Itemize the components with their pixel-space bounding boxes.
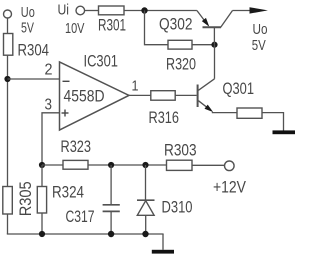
svg-text:D310: D310 <box>162 198 193 217</box>
svg-text:R301: R301 <box>98 16 126 35</box>
node junction at pin2 tap <box>4 76 10 82</box>
node junction C317/bottom rail <box>108 231 114 237</box>
Q302 collector lead <box>221 11 233 28</box>
Q301 base bar <box>197 85 199 108</box>
wire Q302 collector to output arrow <box>233 10 252 12</box>
svg-text:IC301: IC301 <box>84 51 119 70</box>
wire bottom rail <box>7 233 164 235</box>
node junction R324/bottom rail <box>39 231 45 237</box>
terminal Uo 5V (left input) <box>4 10 12 18</box>
node junction C317 tap <box>108 162 114 168</box>
emitter resistor (unlabeled) <box>237 108 262 118</box>
svg-text:2: 2 <box>45 62 53 79</box>
D310 bottom lead <box>145 215 147 234</box>
node junction Q302 base / R320 / Q301 collector <box>211 42 217 48</box>
svg-text:R303: R303 <box>164 141 197 160</box>
capacitor C317 <box>103 165 120 234</box>
svg-text:3: 3 <box>45 97 53 114</box>
svg-text:C317: C317 <box>66 207 95 226</box>
wire Q301 emitter to emitter resistor <box>212 112 237 114</box>
terminal Ui 10V <box>76 6 85 15</box>
node junction R323/R324/pin3 <box>39 162 45 168</box>
svg-text:R320: R320 <box>166 55 196 74</box>
diode D310 (zener, cathode up) <box>137 165 155 234</box>
svg-text:R316: R316 <box>149 108 180 127</box>
svg-text:Q302: Q302 <box>159 15 193 34</box>
D310 cathode bar <box>137 199 155 201</box>
svg-text:4558D: 4558D <box>64 86 105 105</box>
svg-text:Uo: Uo <box>21 4 35 21</box>
D310 triangle <box>137 201 154 216</box>
D310 top lead <box>145 165 147 200</box>
resistor R320 <box>168 40 192 49</box>
wire R303 to terminal +12V <box>192 164 225 166</box>
wire to op-amp pin 2 <box>8 78 60 80</box>
wire Ui to R301 <box>85 10 99 12</box>
wire node to R323 <box>42 164 63 166</box>
node junction D310 tap <box>142 162 148 168</box>
wire R320 to base node <box>192 44 215 46</box>
Q301 emitter lead <box>198 101 209 110</box>
Q301 emitter arrowhead <box>205 105 214 113</box>
resistor R301 <box>99 6 125 15</box>
node junction D310/bottom rail <box>142 231 148 237</box>
wire terminal Uo to R304 <box>7 18 9 34</box>
Q302 emitter arrowhead <box>202 18 210 27</box>
op-amp inverting input minus sign <box>63 80 70 82</box>
resistor R305 <box>3 187 13 215</box>
ground (right) <box>273 130 296 134</box>
wire R316 to Q301 base <box>175 94 196 96</box>
resistor R316 <box>151 91 175 101</box>
node junction R301/R320 <box>141 7 147 13</box>
wire R323 to R303 <box>88 164 167 166</box>
wire op-amp pin 3 feedback tap <box>42 113 60 165</box>
transistor Q301 <box>198 79 215 112</box>
svg-text:5V: 5V <box>252 37 266 54</box>
svg-text:Uo: Uo <box>253 21 268 38</box>
wire R305 to bottom rail <box>7 214 9 234</box>
svg-text:Q301: Q301 <box>223 79 255 98</box>
wire R301 to Q302 emitter <box>124 10 197 12</box>
C317 top lead <box>110 165 112 205</box>
svg-text:Ui: Ui <box>58 1 70 18</box>
wire bottom rail to ground <box>162 234 164 250</box>
svg-text:10V: 10V <box>65 20 85 37</box>
op-amp non-inverting input plus sign <box>62 110 69 117</box>
svg-text:R324: R324 <box>52 182 84 201</box>
svg-text:R304: R304 <box>18 40 50 59</box>
svg-text:R305: R305 <box>16 181 35 216</box>
svg-text:1: 1 <box>132 78 139 95</box>
terminal +12V <box>225 161 235 171</box>
svg-text:5V: 5V <box>21 20 34 37</box>
resistor R303 <box>167 160 193 170</box>
resistor R323 <box>63 160 88 169</box>
Q302 base lead <box>213 28 215 45</box>
Q302 base bar <box>203 26 222 28</box>
wire R324 to bottom rail <box>41 213 43 234</box>
wire node down to R324 <box>41 165 43 187</box>
resistor R324 <box>37 187 46 214</box>
svg-text:+12V: +12V <box>213 177 247 196</box>
wire down from node to R320 <box>145 11 169 45</box>
op-amp U IC301 <box>60 62 130 130</box>
svg-text:R323: R323 <box>61 137 92 156</box>
ground (bottom) <box>152 250 174 254</box>
wire op-amp output pin 1 to R316 <box>129 94 151 96</box>
C317 bottom lead <box>110 211 112 234</box>
output arrow Uo <box>250 7 268 13</box>
wire base node down to Q301 collector <box>214 45 216 79</box>
C317 bottom plate <box>103 210 120 212</box>
transistor Q302 <box>197 11 233 45</box>
Q302 emitter lead <box>197 11 207 24</box>
Q301 collector lead <box>198 79 214 91</box>
wire emitter resistor to ground <box>262 113 284 131</box>
resistor R304 <box>4 34 13 56</box>
C317 top plate <box>103 204 120 206</box>
wire R304 down to R305 (left rail) <box>7 55 9 186</box>
